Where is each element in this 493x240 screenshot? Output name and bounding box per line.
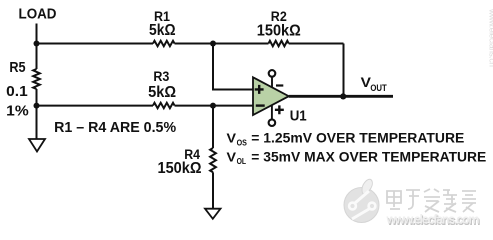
wire R4 bottom (212, 172, 214, 208)
svg-text:V: V (227, 149, 237, 164)
resistor R4 (158, 147, 216, 177)
wire left rail upper (36, 44, 38, 70)
wire noninverting input from node A (213, 44, 253, 90)
junction output node (340, 93, 346, 99)
svg-text:5kΩ: 5kΩ (148, 84, 176, 101)
svg-text:OL: OL (237, 157, 247, 166)
junction node B (R3/R4 to -in) (210, 103, 216, 109)
wire load stub (36, 24, 38, 44)
note VOL spec (227, 149, 487, 166)
wire top rail middle segment (175, 43, 269, 45)
op-amp U1 (253, 70, 307, 126)
junction left top (34, 41, 40, 47)
junction node A (R1/R2 to +in) (210, 41, 216, 47)
junction left middle (34, 103, 40, 109)
svg-text:150kΩ: 150kΩ (158, 160, 202, 177)
svg-text:U1: U1 (290, 109, 307, 125)
resistor R3 (148, 69, 176, 108)
svg-text:OS: OS (237, 138, 248, 147)
svg-text:www.elecfans.com: www.elecfans.com (386, 213, 480, 227)
resistor R5 (6, 60, 40, 119)
wire middle rail left segment (37, 105, 154, 107)
svg-text:R1 – R4 ARE 0.5%: R1 – R4 ARE 0.5% (54, 119, 176, 136)
wire R4 top (212, 106, 214, 148)
svg-text:OUT: OUT (370, 83, 387, 94)
watermark vertical (488, 8, 493, 67)
note VOS spec (227, 131, 465, 148)
wire middle rail right segment to inverting input (175, 105, 254, 107)
wire top rail right segment (289, 43, 344, 45)
wire left rail lower (36, 89, 38, 139)
svg-text:= 1.25mV OVER TEMPERATURE: = 1.25mV OVER TEMPERATURE (251, 131, 464, 146)
svg-text:1%: 1% (6, 103, 29, 119)
svg-text:www.elecfans.cn: www.elecfans.cn (488, 8, 493, 67)
svg-text:R5: R5 (9, 60, 25, 76)
watermark chinese text (387, 189, 476, 212)
node VOUT label (361, 74, 387, 94)
resistor R1 (149, 9, 176, 46)
ground R4 (205, 209, 221, 219)
resistor R2 (257, 9, 301, 46)
svg-text:150kΩ: 150kΩ (257, 22, 301, 39)
ground left (29, 139, 45, 152)
node LOAD (19, 7, 57, 23)
svg-text:= 35mV MAX OVER TEMPERATURE: = 35mV MAX OVER TEMPERATURE (251, 149, 486, 164)
note R1-R4 tolerance (54, 119, 176, 136)
watermark logo (344, 179, 379, 222)
svg-text:R3: R3 (153, 69, 169, 84)
wire feedback drop to output (343, 44, 345, 97)
wire top rail left segment (37, 43, 154, 45)
svg-text:5kΩ: 5kΩ (149, 22, 176, 39)
svg-text:0.1: 0.1 (6, 84, 28, 100)
svg-text:V: V (227, 131, 237, 146)
wire output (289, 95, 393, 98)
svg-text:LOAD: LOAD (19, 7, 57, 23)
watermark url (386, 213, 481, 228)
